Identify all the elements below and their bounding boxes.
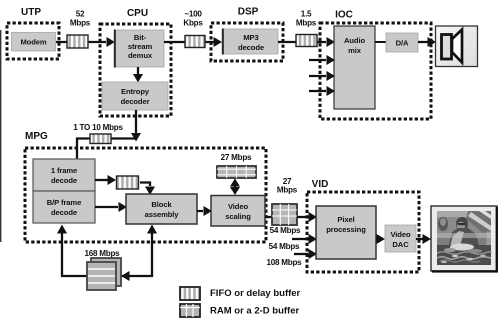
wire Modem to demux <box>56 37 115 47</box>
wire B/P to block assembly <box>95 202 127 212</box>
svg-text:VID: VID <box>312 179 329 190</box>
wire ram loop <box>57 225 157 282</box>
section box CPU <box>100 24 171 116</box>
block Entropy decoder <box>102 82 168 110</box>
svg-text:52: 52 <box>76 10 85 19</box>
svg-text:1.5: 1.5 <box>301 10 312 19</box>
svg-text:MP3: MP3 <box>243 33 258 42</box>
wire block assembly to video scaling <box>197 206 212 216</box>
svg-text:168 Mbps: 168 Mbps <box>85 249 121 258</box>
svg-text:processing: processing <box>326 225 366 234</box>
speaker icon <box>436 26 478 67</box>
svg-text:27 Mbps: 27 Mbps <box>221 153 252 162</box>
wire Audio mix to D/A <box>375 41 386 43</box>
wire demux to MP3 <box>164 37 222 47</box>
svg-text:108 Mbps: 108 Mbps <box>267 258 303 267</box>
wire audio input 3 <box>309 71 335 81</box>
wire input 108Mbps to pixel processing <box>294 249 317 259</box>
svg-text:RAM or a 2-D buffer: RAM or a 2-D buffer <box>210 306 300 317</box>
block B/P frame decode <box>33 191 95 223</box>
svg-text:assembly: assembly <box>145 210 180 219</box>
legend ram icon <box>180 304 200 317</box>
svg-text:decode: decode <box>51 208 77 217</box>
svg-text:B/P frame: B/P frame <box>47 198 81 207</box>
block Audio mix <box>334 26 375 109</box>
svg-text:UTP: UTP <box>21 7 41 18</box>
fifo F4 <box>90 134 111 144</box>
ram R1 <box>217 166 256 178</box>
svg-text:Video: Video <box>228 202 248 211</box>
svg-text:FIFO or delay buffer: FIFO or delay buffer <box>210 288 301 299</box>
section box VID <box>307 192 419 272</box>
svg-text:IOC: IOC <box>335 10 353 21</box>
fifo F2 <box>185 36 205 48</box>
svg-text:Bit-: Bit- <box>134 33 147 42</box>
section box DSP <box>211 23 283 61</box>
wire R2 to pixel processing <box>297 212 317 222</box>
svg-text:Block: Block <box>151 200 172 209</box>
svg-text:mix: mix <box>348 46 362 55</box>
svg-text:Kbps: Kbps <box>183 19 203 28</box>
section box IOC <box>320 23 431 119</box>
svg-text:CPU: CPU <box>127 8 148 19</box>
svg-text:1 TO 10 Mbps: 1 TO 10 Mbps <box>73 123 123 132</box>
wire MP3 to Audio mix <box>278 37 335 47</box>
block Video scaling <box>211 196 265 227</box>
TV screen photo <box>431 206 498 273</box>
fifo F1 <box>67 35 88 48</box>
svg-text:54 Mbps: 54 Mbps <box>269 242 300 251</box>
wire entropy down to MPG <box>131 110 141 142</box>
block 1 frame decode <box>33 159 95 191</box>
section box MPG <box>25 148 266 242</box>
wire fifo branch to 1 frame decode <box>77 139 136 160</box>
block MP3 decode <box>222 29 278 55</box>
svg-text:DAC: DAC <box>392 240 409 249</box>
svg-text:decoder: decoder <box>121 97 150 106</box>
svg-text:decode: decode <box>238 43 264 52</box>
svg-text:stream: stream <box>128 42 153 51</box>
wire F5 to block assembly <box>140 183 155 196</box>
block Block assembly <box>126 194 197 224</box>
wire D/A to speaker <box>418 37 436 47</box>
block Pixel processing <box>316 206 376 259</box>
svg-text:Mbps: Mbps <box>277 186 298 195</box>
ram R3 (168 Mbps buffer) <box>87 258 121 290</box>
legend fifo icon <box>180 287 200 300</box>
svg-text:~100: ~100 <box>184 10 202 19</box>
section box UTP <box>7 23 59 59</box>
svg-text:DSP: DSP <box>238 7 259 18</box>
svg-text:decode: decode <box>51 176 77 185</box>
wire video scaling to R2 <box>265 216 273 218</box>
wire 1 frame decode to fifo F5 <box>95 175 116 185</box>
block Video DAC <box>385 225 416 252</box>
wire pixel processing to video DAC <box>376 234 385 244</box>
wire audio input 4 <box>309 86 335 96</box>
fifo F5 <box>117 176 139 189</box>
wire audio input 2 <box>309 55 335 65</box>
svg-text:Mbps: Mbps <box>70 19 91 28</box>
svg-text:1 frame: 1 frame <box>51 166 77 175</box>
svg-text:54 Mbps: 54 Mbps <box>270 226 301 235</box>
block Bit-stream demux <box>114 30 164 68</box>
svg-text:Pixel: Pixel <box>337 215 354 224</box>
svg-text:Modem: Modem <box>20 38 46 47</box>
svg-text:Video: Video <box>390 230 410 239</box>
svg-text:Entropy: Entropy <box>121 87 150 96</box>
wire demux to entropy <box>133 67 143 83</box>
figure left edge line <box>0 30 2 242</box>
svg-text:demux: demux <box>128 51 153 60</box>
block Modem <box>12 33 56 52</box>
wire R1 to video scaling (double arrow) <box>230 179 240 196</box>
block D/A <box>386 33 418 52</box>
svg-text:MPG: MPG <box>25 131 48 142</box>
svg-text:scaling: scaling <box>225 212 251 221</box>
wire input 54Mbps to pixel processing <box>292 234 317 244</box>
svg-text:Audio: Audio <box>344 36 365 45</box>
svg-text:Mbps: Mbps <box>296 19 317 28</box>
svg-text:D/A: D/A <box>396 39 409 48</box>
ram R2 <box>272 204 297 225</box>
wire video DAC to TV <box>416 234 431 244</box>
fifo F3 <box>296 35 317 47</box>
